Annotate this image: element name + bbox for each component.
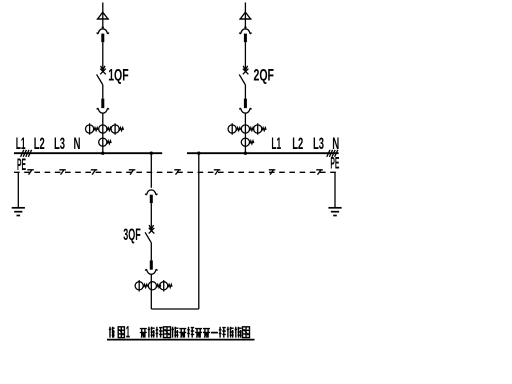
junction dot: tie branch on busbar I	[150, 152, 153, 155]
withdrawable connector male contact (thick bar)	[101, 34, 104, 43]
withdrawable connector female contact (bottom)	[239, 108, 251, 113]
caption underline	[107, 339, 255, 341]
meter/CT circle (tie left) with spark-gap arrow	[135, 280, 148, 291]
wire	[244, 85, 246, 99]
meter/CT circle (centre) with spark-gap arrow	[241, 125, 254, 133]
wire	[102, 42, 104, 66]
caption text (Chinese): 附图1 进线和母线分段开关一次接线图	[109, 323, 250, 341]
svg-text:N: N	[332, 135, 339, 153]
PE line tick mark	[269, 170, 276, 175]
svg-text:1: 1	[126, 323, 130, 341]
withdrawable connector male contact (thick bar)	[150, 195, 153, 203]
withdrawable connector female contact (tie bottom)	[145, 270, 157, 275]
junction dot on busbar	[244, 152, 247, 155]
busbar conductor-count hatch marks	[21, 150, 32, 157]
wire	[102, 85, 104, 99]
earthing conductor (right)	[334, 172, 336, 208]
ground electrode	[328, 208, 341, 216]
withdrawable connector male contact (bottom, feed 1QF)	[101, 99, 104, 109]
withdrawable connector female contact (top, feed 1QF)	[97, 26, 109, 33]
meter/CT circle (left) with spark-gap arrow	[228, 123, 241, 134]
wire	[244, 19, 246, 26]
svg-text:L2: L2	[34, 135, 45, 153]
svg-text:N: N	[74, 135, 81, 153]
circuit breaker 3QF	[145, 225, 154, 242]
wire	[150, 242, 152, 260]
wire: tie branch down from busbar I	[150, 153, 152, 188]
wire: incoming supply line (feed 1QF)	[102, 3, 104, 13]
meter/CT circle (right) with spark-gap arrow	[111, 123, 124, 134]
busbar conductor-count hatch marks	[327, 150, 338, 157]
wire: incoming supply line (feed 2QF)	[244, 3, 246, 13]
svg-text:L2: L2	[292, 135, 303, 153]
PE line tick mark	[129, 170, 136, 175]
svg-text:3QF: 3QF	[123, 226, 141, 244]
wire	[102, 19, 104, 26]
circuit breaker 2QF	[239, 66, 248, 85]
svg-text:PE: PE	[17, 156, 26, 174]
earthing conductor (left)	[17, 172, 19, 208]
ground electrode	[12, 208, 25, 216]
wire	[102, 113, 104, 153]
withdrawable connector male contact (thick bar)	[244, 34, 247, 43]
incoming supply delta/arrow symbol (feed 1QF)	[97, 12, 109, 19]
wire	[150, 203, 152, 225]
meter/CT circle (centre) with spark-gap arrow	[99, 125, 111, 133]
svg-text:L3: L3	[313, 135, 324, 153]
svg-text:L3: L3	[54, 135, 65, 153]
circuit breaker 1QF	[97, 66, 106, 85]
wire	[244, 113, 246, 153]
meter/CT circle (tie right) with spark-gap arrow	[160, 280, 173, 291]
junction dot: tie branch on busbar II	[197, 152, 200, 155]
junction dot on busbar	[101, 152, 104, 155]
meter/CT circle (lower) with spark-gap arrow	[99, 138, 111, 146]
incoming supply delta/arrow symbol (feed 2QF)	[239, 12, 251, 19]
meter/CT circle (left) with spark-gap arrow	[86, 123, 99, 134]
PE line tick mark	[316, 170, 323, 175]
busbar section II: L1 L2 L3 N	[187, 152, 339, 154]
PE line tick mark	[27, 170, 34, 175]
withdrawable connector male contact (bottom, feed 2QF)	[244, 99, 247, 109]
PE line tick mark	[214, 170, 221, 175]
PE line tick mark	[59, 170, 66, 175]
PE line tick mark	[174, 170, 181, 175]
busbar section I: L1 L2 L3 N	[14, 152, 162, 154]
svg-text:L1: L1	[16, 135, 26, 153]
withdrawable connector female contact (bottom)	[97, 108, 109, 113]
svg-text:1QF: 1QF	[108, 67, 129, 85]
withdrawable connector female contact (tie top)	[145, 190, 157, 195]
withdrawable connector female contact (top, feed 2QF)	[239, 26, 251, 33]
meter/CT circle (lower) with spark-gap arrow	[241, 138, 254, 146]
meter/CT circle (right) with spark-gap arrow	[254, 123, 267, 134]
PE line tick mark	[91, 170, 98, 175]
svg-text:2QF: 2QF	[254, 67, 275, 85]
withdrawable connector male contact (tie bottom)	[150, 260, 153, 269]
svg-text:PE: PE	[330, 155, 339, 173]
meter/CT circle (tie centre) with spark-gap arrow	[148, 282, 161, 290]
wire	[150, 274, 152, 309]
PE protective-earth dashed conductor	[14, 171, 337, 173]
wire: tie right leg up to busbar II	[198, 153, 200, 309]
wire	[244, 42, 246, 66]
svg-text:L1: L1	[271, 135, 281, 153]
wire: tie bottom horizontal run	[151, 308, 199, 310]
